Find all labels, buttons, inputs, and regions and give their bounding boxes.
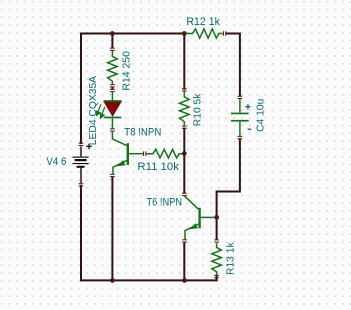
svg-text:T6 !NPN: T6 !NPN <box>147 196 183 208</box>
svg-text:R12 1k: R12 1k <box>186 16 220 28</box>
svg-text:C4 10u: C4 10u <box>255 98 266 131</box>
svg-text:LED4 CQX35A: LED4 CQX35A <box>88 76 99 145</box>
svg-text:T8 !NPN: T8 !NPN <box>124 127 161 139</box>
svg-text:R10 5k: R10 5k <box>193 93 204 126</box>
svg-text:R13 1k: R13 1k <box>226 242 237 275</box>
svg-text:V4 6: V4 6 <box>46 156 66 168</box>
svg-text:R11 10k: R11 10k <box>137 161 179 173</box>
svg-text:R14 250: R14 250 <box>122 51 133 91</box>
